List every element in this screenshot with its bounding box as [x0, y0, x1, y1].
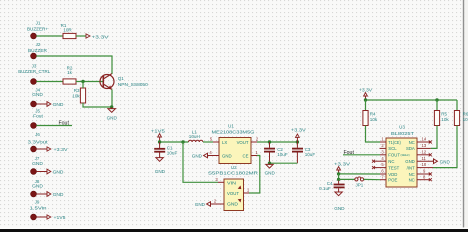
svg-text:BUZZER_CTRL: BUZZER_CTRL	[18, 69, 50, 75]
power +3.3V (boost output)	[291, 127, 307, 142]
capacitor C3	[292, 142, 315, 163]
pin 5 (U1 LX)	[210, 137, 219, 142]
connector J4	[31, 87, 44, 107]
window bottom border	[0, 229, 468, 232]
node U2 branch	[181, 140, 184, 143]
node junction R2/R3	[81, 80, 84, 83]
wire J3 to R2	[36, 81, 63, 83]
svg-text:3.3Vout: 3.3Vout	[28, 139, 49, 145]
svg-text:GND: GND	[32, 161, 43, 167]
wire R5 to U3 pin13	[431, 126, 437, 149]
svg-text:GND: GND	[195, 202, 206, 207]
svg-text:J1: J1	[36, 20, 41, 25]
pin 1 (U2 VOUT)	[244, 188, 250, 193]
wire down to POE branch	[338, 174, 340, 181]
svg-text:R5: R5	[441, 111, 447, 116]
svg-text:NC: NC	[409, 178, 415, 183]
svg-text:J6: J6	[35, 132, 40, 137]
ground (C4)	[334, 192, 345, 211]
node R5 top	[435, 98, 438, 101]
node VDD junction	[337, 172, 340, 175]
wire R4 to U3 pin1	[366, 126, 381, 143]
svg-text:JP1: JP1	[356, 182, 364, 187]
svg-text:BL8025T: BL8025T	[391, 131, 414, 136]
svg-text:GND: GND	[440, 159, 451, 164]
svg-text:VDD: VDD	[388, 172, 397, 177]
svg-text:J5: J5	[35, 108, 40, 113]
svg-text:NC: NC	[409, 172, 415, 177]
node C2/C3 ground junction	[268, 162, 271, 165]
wire L1 to U1 pin5	[203, 141, 213, 143]
wire C3 bottom to C2 bottom	[270, 162, 298, 164]
wire U1 CE to U2 pin1	[249, 156, 260, 194]
svg-text:10uF: 10uF	[305, 152, 316, 157]
transistor Q1	[100, 74, 148, 90]
svg-text:LX: LX	[222, 140, 227, 145]
right side panel strip	[464, 0, 468, 229]
power +3.3V (J6)	[36, 147, 68, 153]
IC U1 boost converter	[212, 123, 256, 163]
power +1V5 (J9)	[36, 215, 65, 221]
resistor R1	[61, 23, 76, 38]
svg-text:11: 11	[422, 156, 427, 161]
node POE branch junction	[337, 178, 340, 181]
wire J5 stub	[36, 125, 72, 127]
svg-text:ME2108C33M5G: ME2108C33M5G	[212, 129, 256, 134]
svg-text:GND: GND	[32, 184, 43, 190]
pin 10 (U3 /INT)	[417, 162, 433, 167]
ground (C2/C3)	[265, 163, 276, 175]
ground flag (J8)	[36, 192, 64, 199]
svg-text:TEST: TEST	[388, 165, 399, 170]
IC U2 regulator	[208, 165, 259, 211]
svg-text:GND: GND	[334, 206, 345, 211]
svg-text:U1: U1	[228, 123, 234, 128]
svg-text:R3: R3	[74, 88, 80, 93]
jumper JP1	[355, 177, 364, 187]
connector J8	[31, 179, 44, 197]
svg-text:CE: CE	[243, 153, 249, 158]
svg-text:GND: GND	[53, 102, 64, 108]
pin 12 (U3 NC)	[417, 149, 432, 156]
wire +3.3V to U3 VDD	[339, 173, 380, 175]
resistor R6	[454, 100, 468, 126]
node C2	[268, 140, 271, 143]
svg-text:10: 10	[422, 162, 427, 167]
svg-text:J9: J9	[35, 199, 40, 204]
power +3.3V (RTC supply)	[334, 162, 351, 174]
pin 5 (U3 TEST)	[372, 162, 386, 169]
svg-text:Q1: Q1	[118, 76, 125, 81]
svg-text:+3.3V: +3.3V	[54, 147, 69, 153]
wire Fout to U3 pin3	[343, 154, 380, 156]
svg-text:GND: GND	[53, 192, 64, 198]
right panel edge	[463, 0, 465, 229]
svg-text:GND: GND	[107, 116, 118, 121]
svg-text:+1V5: +1V5	[54, 215, 66, 221]
svg-text:NPN_SS8050: NPN_SS8050	[118, 82, 148, 87]
power +3.3V (J1 row)	[76, 34, 109, 41]
svg-text:R6: R6	[463, 111, 468, 116]
svg-text:BUZZER+: BUZZER+	[27, 26, 48, 32]
node emitter junction	[110, 105, 113, 108]
svg-text:J2: J2	[36, 42, 41, 47]
svg-text:GND: GND	[222, 153, 232, 158]
pin 13 (U3 SDA)	[417, 143, 431, 148]
svg-text:Fout: Fout	[33, 114, 43, 120]
svg-text:10uF: 10uF	[167, 150, 178, 155]
pin 4 (U3 NC)	[372, 156, 386, 163]
svg-text:10k: 10k	[72, 93, 80, 98]
capacitor C4	[319, 181, 345, 193]
svg-text:U3: U3	[399, 125, 405, 130]
inductor L1	[189, 130, 203, 143]
svg-text:GND: GND	[155, 169, 166, 174]
svg-text:10uH: 10uH	[189, 134, 200, 139]
svg-text:1k: 1k	[67, 70, 73, 75]
wire R3 bottom to emitter node	[83, 103, 112, 107]
wire JP1 to U3 POE	[364, 178, 380, 180]
resistor R5	[434, 100, 449, 126]
pin 14 (U3 NC)	[417, 137, 432, 144]
pin 8 (U3 NC)	[417, 174, 432, 181]
connector J3	[18, 64, 50, 85]
gap above window border	[0, 227, 468, 229]
svg-text:GND: GND	[32, 92, 43, 98]
connector J2	[28, 42, 47, 59]
pin 2 (U2 GND) ground flag	[195, 199, 224, 208]
ground (Q1 emitter)	[107, 107, 118, 121]
svg-text:VOUT: VOUT	[237, 140, 249, 145]
svg-text:10uF: 10uF	[277, 152, 288, 157]
svg-text:10k: 10k	[370, 117, 378, 122]
power +1V5 (boost input)	[151, 129, 165, 142]
svg-text:GND: GND	[405, 159, 415, 164]
ground flag (J7)	[36, 169, 64, 176]
wire to JP1	[339, 178, 355, 180]
svg-text:0.1uF: 0.1uF	[319, 186, 331, 191]
svg-text:/INT: /INT	[407, 165, 415, 170]
svg-text:J8: J8	[35, 179, 40, 184]
pin 7 (U3 POE)	[380, 174, 386, 179]
svg-text:J7: J7	[35, 156, 40, 161]
pin 3 (U3 FOUT)	[380, 149, 386, 154]
svg-text:10R: 10R	[63, 27, 72, 32]
svg-text:12: 12	[422, 149, 427, 154]
pin 1 (U3 T1(CE))	[380, 137, 386, 142]
svg-text:+3.3V: +3.3V	[291, 127, 307, 133]
svg-text:(32kHz): (32kHz)	[401, 153, 410, 157]
connector J1	[27, 20, 48, 39]
resistor R4	[363, 100, 378, 126]
wire R2 to Q1 base	[76, 81, 103, 83]
svg-text:10k: 10k	[441, 117, 449, 122]
pin 2 (U1 VOUT)	[251, 137, 259, 142]
resistor R3	[72, 82, 85, 104]
svg-text:VIN: VIN	[227, 180, 236, 185]
svg-text:BUZZER: BUZZER	[28, 48, 47, 54]
svg-text:VOUT: VOUT	[227, 191, 239, 196]
svg-text:NC: NC	[388, 159, 394, 164]
wire J2 to Q1 collector	[36, 56, 112, 74]
connector J6	[28, 132, 49, 152]
wire U1 VOUT to output caps	[257, 141, 297, 143]
wire J1 to R1	[36, 35, 63, 37]
connector J7	[31, 156, 44, 174]
node R4 top	[364, 98, 367, 101]
ground flag (J4)	[36, 102, 64, 109]
svg-text:Fout: Fout	[59, 121, 70, 127]
wire +1V5 branch to U2 VIN	[183, 142, 218, 182]
svg-text:J3: J3	[32, 64, 37, 69]
svg-text:SCL: SCL	[388, 146, 397, 151]
pin 1 (U1 CE)	[251, 150, 258, 156]
wire R6 to U3 pin10	[433, 126, 457, 168]
pin 3 (U2 VIN)	[215, 177, 224, 182]
svg-text:S5PB1CC1802MR: S5PB1CC1802MR	[208, 170, 259, 175]
pin 11 (U3 GND) ground flag	[417, 156, 450, 165]
ground (C1)	[155, 158, 166, 174]
svg-text:13: 13	[422, 143, 427, 148]
wire pull-up rail	[366, 99, 458, 101]
svg-text:10k: 10k	[463, 117, 468, 122]
svg-text:GND: GND	[227, 202, 238, 207]
pin 9 (U3 NC)	[417, 169, 432, 176]
pin 6 (U3 VDD)	[380, 169, 386, 174]
svg-text:T1(CE): T1(CE)	[388, 140, 401, 145]
svg-text:U2: U2	[231, 165, 237, 170]
wire +1V5 rail to L1	[160, 141, 189, 143]
pin 4 (U1 GND) ground flag	[192, 150, 219, 159]
IC U3 RTC	[386, 125, 417, 187]
capacitor C1	[154, 142, 177, 158]
wire Q1 emitter to ground	[111, 89, 113, 107]
node C1 tap	[158, 140, 161, 143]
connector J9	[30, 199, 47, 220]
svg-text:+1V5: +1V5	[151, 129, 165, 135]
svg-text:1.5Vin: 1.5Vin	[30, 206, 47, 212]
svg-text:SDA: SDA	[406, 146, 415, 151]
svg-text:+3.3V: +3.3V	[92, 34, 110, 40]
svg-text:NC: NC	[409, 140, 415, 145]
svg-text:FOUT: FOUT	[388, 153, 400, 158]
svg-text:GND: GND	[53, 170, 64, 176]
svg-text:J4: J4	[35, 87, 40, 92]
resistor R2	[63, 65, 76, 84]
svg-text:GND: GND	[265, 170, 276, 175]
svg-text:+3.3V: +3.3V	[334, 162, 351, 168]
svg-text:POE: POE	[388, 178, 397, 183]
svg-text:R4: R4	[370, 111, 376, 116]
svg-text:14: 14	[422, 137, 427, 142]
connector J5	[31, 108, 44, 128]
node C3 / +3.3V	[296, 140, 299, 143]
capacitor C2	[264, 142, 288, 163]
power +3.3V (U3 pull-up rail)	[359, 88, 373, 100]
svg-text:GND: GND	[192, 154, 203, 159]
pin 2 (U3 SCL)	[380, 143, 387, 148]
